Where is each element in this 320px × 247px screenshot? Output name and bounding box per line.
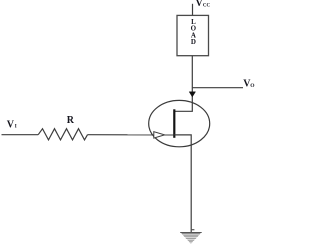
svg-text:O: O	[250, 83, 255, 89]
ground symbol	[180, 232, 202, 243]
source lead of Q1	[174, 135, 191, 233]
wire load box to drain	[174, 56, 192, 112]
wire output node	[192, 87, 243, 89]
gate wire from Vi to resistor	[2, 134, 39, 136]
svg-text:I: I	[15, 125, 17, 130]
wire Vcc to load box	[192, 4, 194, 16]
svg-text:D: D	[191, 38, 196, 46]
tick on ground wire	[191, 229, 194, 231]
resistor R zigzag	[38, 129, 87, 140]
svg-text:CC: CC	[203, 4, 211, 9]
load box	[177, 15, 209, 55]
channel bar of Q1	[173, 109, 175, 138]
svg-text:V: V	[7, 119, 15, 130]
svg-text:R: R	[67, 115, 75, 126]
transistor Q1 envelope	[149, 100, 210, 146]
gate open arrowhead	[154, 132, 165, 138]
gate wire from resistor to Q1	[88, 134, 174, 136]
arrowhead drain current	[189, 92, 195, 97]
